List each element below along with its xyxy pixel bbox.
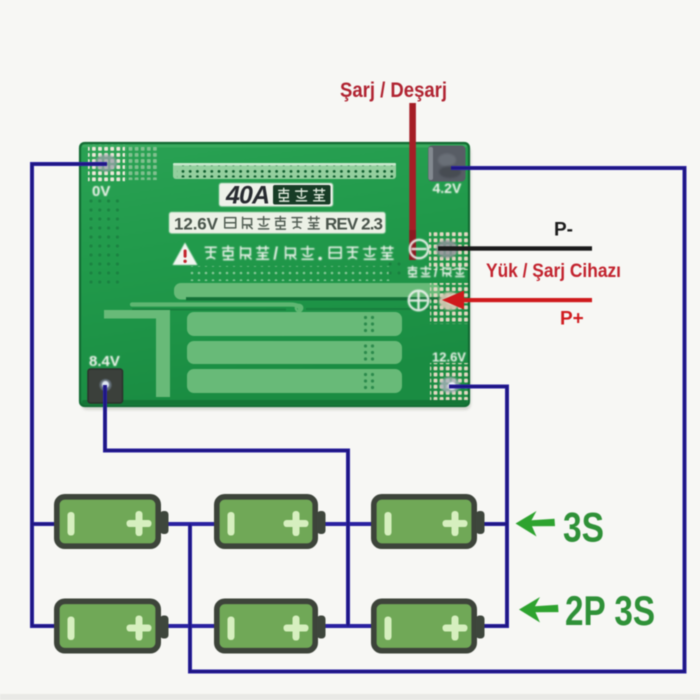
svg-text:3S: 3S <box>563 504 604 551</box>
svg-text:Yük / Şarj Cihazı: Yük / Şarj Cihazı <box>486 261 621 282</box>
svg-text:12.6V: 12.6V <box>174 215 219 234</box>
svg-text:P-: P- <box>554 220 573 241</box>
svg-text:12.6V: 12.6V <box>432 350 466 365</box>
svg-text:/: / <box>273 244 278 264</box>
svg-text:2P 3S: 2P 3S <box>565 587 655 634</box>
svg-text:4.2V: 4.2V <box>433 180 462 196</box>
svg-text:REV 2.3: REV 2.3 <box>325 215 383 234</box>
svg-text:40A: 40A <box>225 182 270 210</box>
svg-text:Şarj / Deşarj: Şarj / Deşarj <box>340 79 447 102</box>
svg-text:0V: 0V <box>92 183 110 200</box>
svg-text:/: / <box>434 264 438 280</box>
svg-text:P+: P+ <box>560 309 584 330</box>
svg-text:8.4V: 8.4V <box>89 353 120 370</box>
